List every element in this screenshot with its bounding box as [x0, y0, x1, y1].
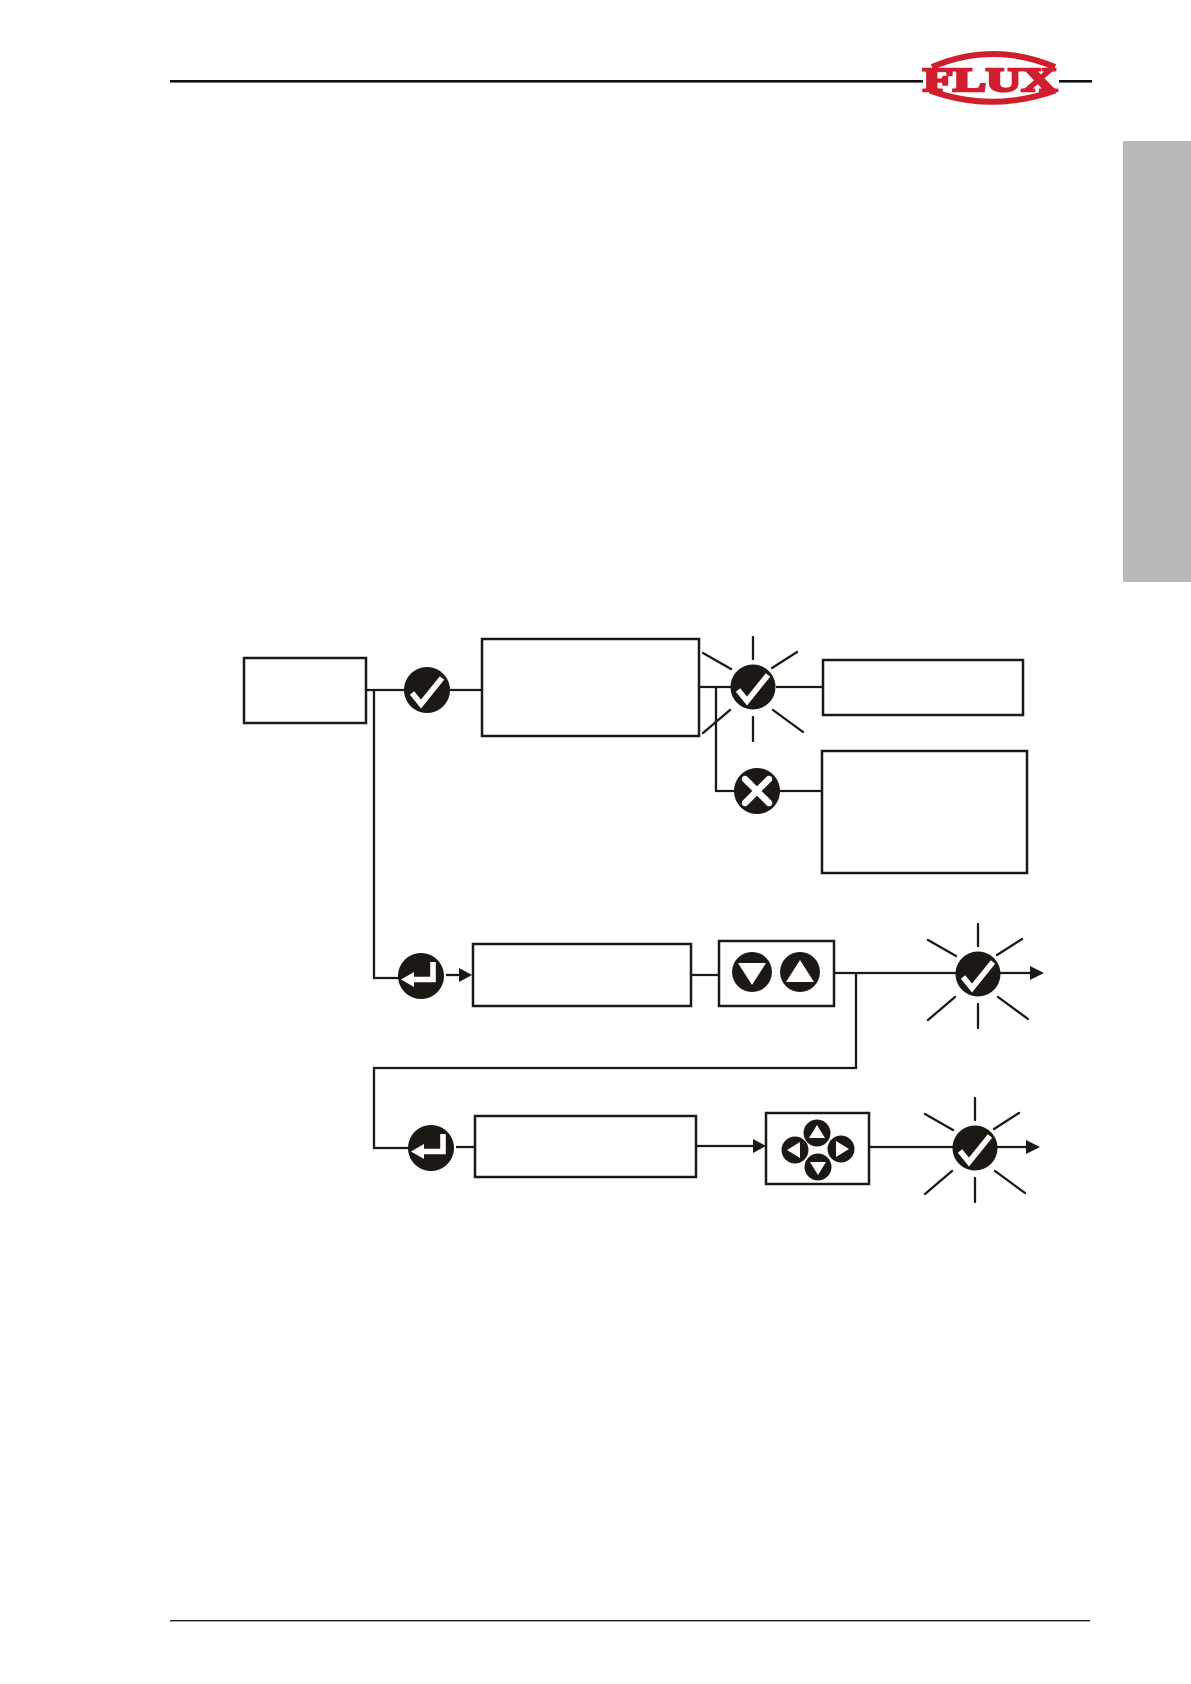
branch wire from B1 down to row 2 [374, 691, 400, 978]
header rule left segment [170, 80, 923, 83]
box B7 (menu item 2) [475, 1116, 696, 1177]
wire X to box B4 [780, 790, 822, 792]
box B1 (start) [244, 658, 366, 723]
box B3 (result ok) [823, 660, 1023, 715]
blinking OK circle S3 [925, 1098, 1025, 1202]
loop wire down-left to row 3 [374, 973, 856, 1148]
enter circle E1 [398, 953, 444, 999]
wire B8 to blinking OK S3 [869, 1146, 953, 1148]
X cancel circle [734, 768, 780, 814]
arrow B7 to nav box [696, 1139, 766, 1153]
arrow E1 to box B5 [446, 968, 472, 982]
button box B6 (up/down keys) [719, 941, 834, 1006]
header rule right segment [1059, 80, 1092, 83]
box B4 (error) [822, 751, 1027, 873]
OK check circle C1 [404, 667, 450, 713]
blinking OK circle S2 [928, 924, 1028, 1028]
enter circle E2 [408, 1125, 454, 1171]
footer rule [170, 1620, 1090, 1621]
wire E2 to box B7 [456, 1146, 475, 1148]
wire B2 to blinking OK [699, 686, 731, 688]
wire S1 to box B3 [776, 686, 823, 688]
nav box B8 (4-way keys) [766, 1113, 869, 1184]
blinking OK circle S1 [703, 637, 803, 741]
wire B6 to blinking OK S2 [834, 972, 956, 974]
svg-text:FLUX: FLUX [923, 62, 1058, 99]
box B2 (display) [482, 639, 699, 736]
box B5 (menu item) [473, 944, 691, 1006]
wire B5 to button box [691, 974, 719, 976]
wire C1 to box B2 [450, 689, 482, 691]
wire junction down to X row [716, 687, 734, 791]
grey sidebar tab [1123, 141, 1191, 582]
exit arrow from S2 [1000, 966, 1044, 980]
wire B1 to OK circle [366, 689, 404, 691]
exit arrow from S3 [997, 1140, 1040, 1154]
FLUX logo [923, 54, 1058, 102]
